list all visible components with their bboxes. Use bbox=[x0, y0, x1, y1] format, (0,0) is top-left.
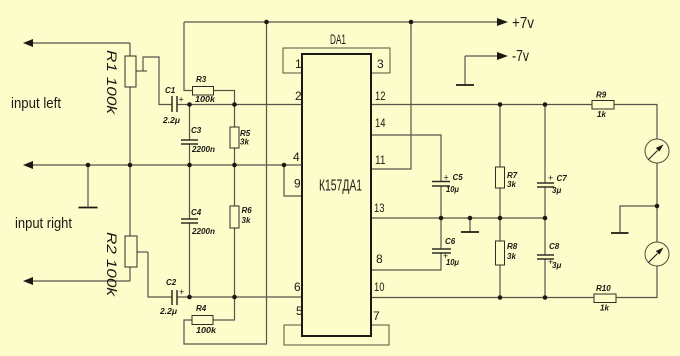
node meter/ground junction bbox=[655, 204, 660, 209]
wire R4 left loop to top rail bbox=[184, 22, 267, 344]
wire R5 bottom lead bbox=[234, 148, 236, 165]
node pin2/C1 junction bbox=[187, 102, 192, 107]
svg-text:R10: R10 bbox=[596, 284, 611, 293]
potentiometer R2 bbox=[125, 236, 137, 267]
wire R1 top lead bbox=[129, 43, 131, 56]
svg-text:4: 4 bbox=[293, 150, 300, 164]
svg-text:3: 3 bbox=[377, 57, 384, 71]
svg-text:C1: C1 bbox=[165, 86, 176, 95]
resistor R10 bbox=[594, 294, 616, 303]
wire C8 bottom stem bbox=[544, 259, 546, 298]
svg-text:C4: C4 bbox=[191, 208, 202, 217]
ground -7v bbox=[456, 84, 474, 86]
wire R4 right lead bbox=[213, 297, 235, 320]
capacitor C5 plates bbox=[432, 182, 450, 187]
node pin10/R8 junction bbox=[498, 295, 503, 300]
svg-text:R8: R8 bbox=[507, 242, 518, 251]
svg-text:3k: 3k bbox=[240, 138, 249, 147]
wire pin11 riser to rail bbox=[371, 22, 411, 169]
svg-text:+: + bbox=[548, 173, 553, 183]
svg-text:100k: 100k bbox=[195, 95, 216, 104]
ground left bbox=[79, 207, 98, 209]
node pin10/C8 junction bbox=[543, 295, 548, 300]
node pin6/C4 junction bbox=[187, 295, 192, 300]
arrow -7v bbox=[497, 52, 508, 60]
svg-text:1k: 1k bbox=[600, 304, 609, 313]
potentiometer R1 bbox=[125, 56, 136, 87]
wire C7 top stem bbox=[544, 105, 546, 184]
node pin4/pin9 junction bbox=[282, 163, 287, 168]
wire R6 top lead bbox=[234, 165, 236, 206]
wire pin13 bbox=[371, 217, 545, 219]
svg-text:C8: C8 bbox=[549, 242, 560, 251]
resistor R7 bbox=[496, 167, 505, 188]
svg-text:R4: R4 bbox=[196, 304, 207, 313]
svg-text:7: 7 bbox=[373, 309, 380, 323]
wire C4 bottom stem bbox=[189, 223, 191, 297]
wire C5 bottom stem bbox=[440, 186, 442, 218]
wire R6 bottom lead bbox=[234, 228, 236, 297]
node pin13/ground junction bbox=[468, 216, 473, 221]
wire pin12 to R9 bbox=[371, 104, 592, 106]
resistor R5 bbox=[230, 127, 239, 148]
wire pin6 from C2 to IC bbox=[177, 296, 302, 298]
wire R2 top lead bbox=[129, 165, 131, 236]
node pin13/C5 junction bbox=[439, 216, 444, 221]
wire C4 top stem bbox=[189, 165, 191, 219]
wire +7v top rail bbox=[184, 21, 498, 23]
svg-text:3μ: 3μ bbox=[552, 186, 561, 195]
wire R2 wiper to C2 bbox=[148, 252, 172, 297]
wire R3 right drop bbox=[214, 91, 235, 105]
svg-text:3k: 3k bbox=[507, 252, 516, 261]
op-amp IC DA1 body bbox=[302, 54, 371, 336]
wire R5 top lead bbox=[234, 105, 236, 128]
svg-text:+: + bbox=[444, 173, 449, 183]
svg-text:R7: R7 bbox=[507, 171, 518, 180]
svg-text:C2: C2 bbox=[166, 278, 177, 287]
svg-text:C5: C5 bbox=[453, 173, 464, 182]
svg-text:2.2μ: 2.2μ bbox=[159, 307, 177, 316]
svg-text:13: 13 bbox=[374, 201, 385, 215]
wire R1 wiper stub bbox=[136, 70, 147, 72]
capacitor C2 plates bbox=[172, 290, 177, 305]
capacitor C7 plates bbox=[537, 183, 554, 187]
svg-text:3k: 3k bbox=[507, 180, 516, 189]
svg-text:2200n: 2200n bbox=[191, 145, 215, 154]
svg-text:C3: C3 bbox=[191, 126, 202, 135]
svg-text:input left: input left bbox=[11, 95, 62, 112]
wire -7v ground stem bbox=[464, 56, 466, 85]
node pin4/R1/R2 junction bbox=[128, 163, 133, 168]
node rail/pin11 junction bbox=[409, 20, 414, 25]
wire ground stem mid bbox=[469, 218, 471, 232]
wire C7-C8 middle bbox=[544, 187, 546, 255]
capacitor C1 plates bbox=[172, 96, 177, 112]
wire C3 bottom stem bbox=[189, 144, 191, 165]
node pin4/ground junction bbox=[86, 163, 91, 168]
wire R8 bottom lead bbox=[499, 265, 501, 298]
svg-text:DA1: DA1 bbox=[330, 31, 346, 47]
svg-text:2: 2 bbox=[295, 89, 302, 103]
node pin13/R7 junction bbox=[498, 216, 503, 221]
svg-text:1k: 1k bbox=[597, 110, 606, 119]
wire meter ground branch bbox=[620, 206, 657, 233]
svg-text:+7v: +7v bbox=[512, 15, 534, 32]
wire pin9 branch bbox=[284, 165, 302, 196]
node pin2/R3/R5 junction bbox=[232, 102, 237, 107]
arrow input mid bbox=[23, 161, 33, 169]
svg-text:9: 9 bbox=[294, 177, 301, 191]
meter M2 bbox=[645, 242, 669, 266]
wire R3 left riser from rail bbox=[184, 22, 193, 91]
svg-text:3k: 3k bbox=[242, 216, 251, 225]
wire pin8 to C6 bbox=[371, 253, 441, 270]
capacitor C8 plates bbox=[537, 255, 554, 259]
resistor R4 bbox=[192, 316, 213, 325]
resistor R6 bbox=[230, 206, 239, 228]
svg-text:2.2μ: 2.2μ bbox=[162, 116, 180, 125]
meter M1 bbox=[645, 139, 669, 163]
capacitor C4 plates bbox=[181, 219, 198, 223]
svg-text:R6: R6 bbox=[242, 206, 253, 215]
svg-text:R1 100k: R1 100k bbox=[104, 50, 119, 116]
svg-text:5: 5 bbox=[296, 304, 303, 318]
svg-text:+: + bbox=[179, 95, 184, 105]
svg-text:R3: R3 bbox=[196, 75, 207, 84]
wire input left bbox=[32, 42, 130, 44]
ground mid bbox=[461, 231, 479, 233]
resistor R3 bbox=[193, 87, 214, 96]
wire pin2 from C1 to IC bbox=[177, 104, 302, 106]
ground meters bbox=[611, 232, 629, 234]
svg-text:-7v: -7v bbox=[512, 48, 529, 65]
svg-text:6: 6 bbox=[294, 280, 301, 294]
wire input right bbox=[33, 280, 130, 282]
svg-text:+: + bbox=[179, 287, 184, 297]
svg-text:R9: R9 bbox=[596, 91, 607, 100]
wire input mid to pin4 bbox=[32, 164, 302, 166]
wire pin14 to C5 bbox=[371, 135, 441, 181]
wire pin10 to R10 bbox=[371, 297, 594, 299]
svg-text:14: 14 bbox=[375, 116, 386, 130]
wire R1 wiper to C1 bbox=[143, 57, 172, 105]
svg-text:C6: C6 bbox=[445, 237, 456, 246]
node pin6/R6/R4 junction bbox=[232, 295, 237, 300]
arrow +7v bbox=[497, 18, 508, 26]
svg-text:10μ: 10μ bbox=[446, 258, 459, 267]
svg-text:10: 10 bbox=[374, 280, 385, 294]
wire -7v stub bbox=[465, 55, 498, 57]
capacitor C3 plates bbox=[181, 140, 198, 144]
resistor R8 bbox=[496, 241, 505, 265]
IC outline box bottom pins 5,7 bbox=[284, 325, 389, 345]
svg-text:2200n: 2200n bbox=[191, 227, 215, 236]
svg-text:input right: input right bbox=[15, 215, 73, 232]
node rail/R4 junction bbox=[264, 20, 269, 25]
svg-text:C7: C7 bbox=[557, 174, 568, 183]
wire meter1 to junction bbox=[656, 163, 658, 242]
node pin4/R5/R6 junction bbox=[232, 163, 237, 168]
arrow input left bbox=[23, 39, 33, 47]
svg-text:R2 100k: R2 100k bbox=[104, 232, 119, 298]
arrow input right bbox=[23, 277, 33, 285]
resistor R9 bbox=[592, 101, 614, 110]
IC outline box top pins 1,3 bbox=[283, 48, 390, 73]
svg-text:3μ: 3μ bbox=[552, 261, 561, 270]
wire R7 top lead bbox=[499, 105, 501, 168]
svg-text:100k: 100k bbox=[196, 326, 217, 335]
svg-text:11: 11 bbox=[375, 153, 386, 167]
wire R9 to meter1 bbox=[614, 105, 657, 140]
ground left stem bbox=[87, 165, 89, 208]
node pin12/R7 junction bbox=[498, 102, 503, 107]
capacitor C6 plates bbox=[432, 249, 451, 253]
svg-text:8: 8 bbox=[376, 252, 383, 266]
node pin13/C7 junction bbox=[543, 216, 548, 221]
wire C6 top stem bbox=[440, 218, 442, 249]
wire R2 bottom lead bbox=[129, 267, 131, 281]
node pin12/C7 junction bbox=[543, 102, 548, 107]
wire R1 bottom lead bbox=[129, 87, 131, 165]
wire R10 to meter2 bbox=[616, 266, 657, 298]
svg-text:10μ: 10μ bbox=[446, 185, 459, 194]
wire R2 wiper stub bbox=[137, 251, 148, 253]
node pin4/C3/C4 junction bbox=[187, 163, 192, 168]
wire C3 top stem bbox=[189, 105, 191, 141]
svg-text:12: 12 bbox=[375, 89, 386, 103]
svg-text:К157ДА1: К157ДА1 bbox=[319, 178, 362, 195]
svg-text:1: 1 bbox=[295, 57, 302, 71]
wire R7-R8 middle bbox=[499, 188, 501, 241]
